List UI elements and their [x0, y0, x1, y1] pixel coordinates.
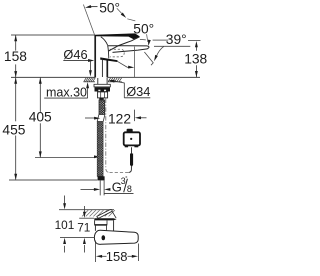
extension line from lever to counter: [134, 47, 136, 78]
lever pressed direction line: [144, 52, 153, 63]
bottom ref line: [60, 237, 94, 239]
svg-text:50°: 50°: [133, 21, 154, 36]
cable dash-dot line: [106, 99, 110, 173]
39 deg underline and arc leader: [154, 45, 190, 47]
svg-text:122: 122: [108, 111, 131, 126]
lever slanted (side): [97, 210, 112, 218]
washer: [94, 84, 110, 87]
deck bottom lines: [84, 81, 96, 83]
50 deg label (first): [85, 0, 120, 15]
svg-text:138: 138: [184, 52, 207, 67]
dimension 138: [184, 41, 207, 78]
hose nut: [98, 92, 108, 98]
svg-text:39°: 39°: [166, 32, 187, 47]
svg-text:71: 71: [77, 220, 90, 234]
spout inner curve: [101, 37, 108, 45]
G 3/8 dimension: [81, 176, 134, 195]
mouth dark band: [100, 57, 117, 62]
spout top edge (thick): [95, 33, 140, 39]
hose crimp: [99, 98, 103, 100]
svg-text:158: 158: [106, 249, 128, 264]
cable from box with plug: [131, 147, 133, 154]
wall hatch: [82, 210, 115, 216]
50 deg leg line to body corner: [83, 5, 94, 36]
spout underside: [109, 37, 140, 51]
hose end cap: [98, 176, 105, 180]
dimension 158 (top): [4, 35, 27, 77]
mouth curve: [108, 45, 109, 58]
deck hatch left: [84, 78, 95, 82]
faucet body left edge: [94, 35, 96, 77]
dimension 158 (bottom): [95, 241, 138, 265]
svg-text:max.30: max.30: [46, 85, 87, 99]
svg-text:50°: 50°: [99, 0, 120, 15]
svg-text:158: 158: [4, 49, 27, 64]
dimension 71: [77, 206, 94, 253]
dimension 122: [85, 110, 147, 127]
neck: [94, 220, 96, 224]
mouth leader arrow: [117, 61, 127, 67]
countertop line: [11, 76, 95, 78]
lever hidden outline (dashed): [110, 49, 124, 57]
455 bottom reference line: [9, 179, 97, 181]
max.30 label: [44, 82, 89, 99]
control box: [124, 129, 140, 148]
svg-text:Ø46: Ø46: [63, 47, 87, 62]
svg-text:455: 455: [2, 123, 25, 138]
lever (front view): [107, 46, 149, 53]
svg-text:101: 101: [55, 218, 75, 232]
405 bottom reference line: [35, 157, 95, 159]
locknut (dark): [95, 87, 111, 91]
50 deg right arm: [117, 8, 123, 14]
svg-text:8: 8: [127, 184, 132, 194]
faucet body right edge: [106, 61, 108, 78]
dia 34 label: [108, 79, 150, 99]
lever flat bar with tip: [94, 218, 116, 220]
svg-text:405: 405: [29, 110, 52, 125]
dimension 405: [29, 77, 52, 157]
dimension 455: [2, 77, 25, 180]
svg-text:3: 3: [121, 176, 126, 186]
spout (bottom view): [94, 230, 138, 244]
threaded shank below deck: [98, 58, 107, 84]
svg-text:Ø34: Ø34: [126, 84, 150, 99]
dimension 101: [55, 196, 75, 253]
50 deg label (second): [133, 21, 154, 46]
wall line: [59, 209, 114, 211]
braided hose lower: [97, 122, 103, 177]
hose bend (smooth): [97, 115, 105, 122]
deck hatch right: [108, 78, 121, 82]
dia 46 label: [63, 47, 94, 77]
spout height reference line: [11, 34, 95, 36]
braided hose upper: [99, 100, 105, 115]
